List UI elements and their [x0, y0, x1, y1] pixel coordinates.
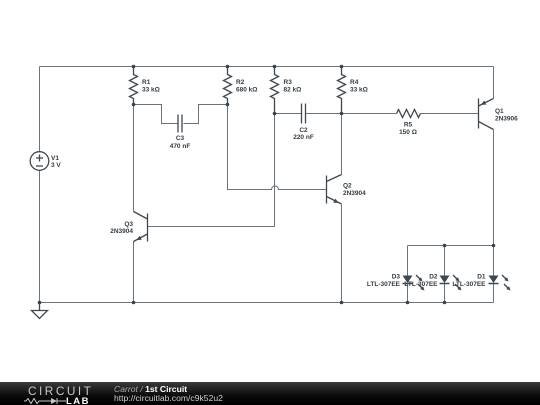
junction Q2 emitter bottom	[340, 301, 344, 305]
svg-text:R4: R4	[350, 79, 359, 86]
wire D2 cathode lead	[444, 284, 446, 303]
label V1 value	[51, 155, 61, 169]
junction Q3 emitter bottom	[132, 301, 136, 305]
svg-text:D1: D1	[477, 274, 486, 281]
label Q1 value	[495, 108, 518, 123]
svg-text:470 nF: 470 nF	[170, 143, 191, 150]
transistor Q2	[327, 175, 342, 205]
wire C3 left lead	[134, 105, 178, 124]
capacitor C2	[302, 104, 306, 124]
svg-text:R5: R5	[404, 122, 413, 129]
wire left rail lower (V1 to ground)	[39, 171, 41, 303]
junction D2 top	[443, 244, 447, 248]
svg-text:LTL-307EE: LTL-307EE	[367, 281, 401, 288]
wire R5 to Q1 base	[421, 113, 479, 115]
junction R3 top	[273, 65, 277, 69]
LED D1	[489, 275, 511, 291]
resistor R1	[130, 67, 138, 105]
resistor R5	[397, 110, 421, 118]
svg-text:33 kΩ: 33 kΩ	[142, 87, 160, 94]
junction ground node	[38, 301, 42, 305]
label R4 value	[350, 79, 368, 94]
svg-text:D3: D3	[392, 274, 401, 281]
label Q3 value	[110, 221, 133, 235]
wire R4 bottom to Q2 collector	[341, 114, 343, 175]
wire R2 bottom to Q2 base (hop over R3 net)	[228, 105, 327, 190]
wire D1 cathode lead	[493, 284, 495, 303]
wire C3 right lead	[184, 105, 228, 124]
svg-text:C3: C3	[176, 135, 185, 142]
svg-text:R3: R3	[284, 79, 293, 86]
junction R2 top	[226, 65, 230, 69]
wire D2 anode lead	[444, 246, 446, 276]
svg-text:V1: V1	[51, 155, 59, 162]
svg-text:Q3: Q3	[124, 221, 133, 228]
svg-text:2N3906: 2N3906	[495, 116, 518, 123]
svg-text:Q1: Q1	[495, 108, 504, 115]
svg-text:Q2: Q2	[343, 183, 352, 190]
wire top rail	[40, 66, 494, 68]
svg-text:150 Ω: 150 Ω	[399, 129, 417, 136]
junction R3 bottom / C2 left	[273, 112, 277, 116]
label C3 value	[170, 135, 191, 150]
junction D2 bottom	[443, 301, 447, 305]
label R2 value	[236, 79, 257, 94]
CircuitLab logo	[24, 382, 104, 405]
junction D1 top / Q1 collector	[492, 244, 496, 248]
LED D2	[440, 275, 462, 291]
label R1 value	[142, 79, 160, 94]
svg-text:R2: R2	[236, 79, 245, 86]
junction R4 top	[340, 65, 344, 69]
wire D3 cathode lead	[407, 284, 409, 303]
resistor R3	[271, 67, 279, 114]
label D2 value	[404, 274, 438, 288]
wire Q3 emitter to bottom rail	[133, 242, 135, 303]
wire C2 left lead	[275, 113, 302, 115]
svg-text:33 kΩ: 33 kΩ	[350, 87, 368, 94]
resistor R4	[338, 67, 346, 114]
junction R4 bottom / C2 right	[340, 112, 344, 116]
wire bottom rail	[40, 302, 494, 304]
junction D3 bottom	[406, 301, 410, 305]
label Q2 value	[343, 183, 366, 198]
wire LED top rail	[408, 245, 494, 247]
junction R1 top	[132, 65, 136, 69]
wire R1 bottom to Q3 collector	[133, 105, 135, 212]
capacitor C3	[178, 115, 182, 133]
svg-text:680 kΩ: 680 kΩ	[236, 87, 257, 94]
transistor Q1	[479, 99, 494, 130]
svg-text:2N3904: 2N3904	[343, 190, 366, 197]
label D1 value	[452, 274, 486, 288]
ground	[32, 303, 48, 319]
svg-text:LTL-307EE: LTL-307EE	[404, 281, 438, 288]
svg-text:2N3904: 2N3904	[110, 228, 133, 235]
junction R1 bottom / C3 left	[132, 103, 136, 107]
label C2 value	[293, 127, 314, 141]
svg-text:3 V: 3 V	[51, 162, 61, 169]
label R5 value	[399, 122, 417, 137]
svg-text:LAB: LAB	[66, 396, 90, 405]
svg-text:D2: D2	[429, 274, 438, 281]
wire Q2 emitter to bottom rail	[341, 205, 343, 303]
svg-text:R1: R1	[142, 79, 151, 86]
resistor R2	[224, 67, 232, 105]
wire Q1 collector to LED rail	[493, 130, 495, 246]
transistor Q3	[134, 212, 148, 242]
svg-text:LTL-307EE: LTL-307EE	[452, 281, 486, 288]
junction R2 bottom / C3 right	[226, 103, 230, 107]
voltage source V1	[30, 152, 49, 171]
LED D3	[403, 275, 425, 291]
wire Q1 emitter to top rail	[493, 67, 495, 99]
label R3 value	[284, 79, 302, 94]
svg-text:82 kΩ: 82 kΩ	[284, 87, 302, 94]
svg-text:220 nF: 220 nF	[293, 134, 314, 141]
label D3 value	[367, 274, 401, 288]
wire R3 bottom to Q3 base	[148, 114, 275, 227]
wire left rail upper (top rail to V1)	[39, 67, 41, 152]
wire D3 anode lead	[407, 246, 409, 276]
wire D1 anode lead	[493, 246, 495, 276]
wire C2 right lead to R5	[306, 113, 397, 115]
